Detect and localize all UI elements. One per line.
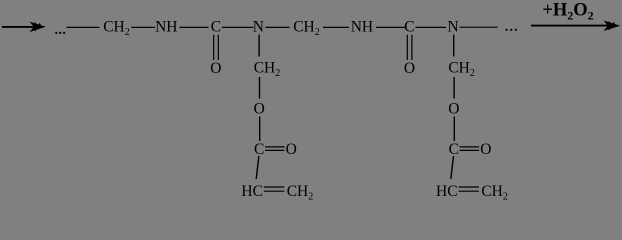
bond C to CH slanted (unit 2) xyxy=(451,156,454,179)
ellipsis dots (right) xyxy=(506,29,517,31)
bond CH2 to NH xyxy=(323,26,349,28)
svg-text:HC: HC xyxy=(241,183,263,200)
bond NH to C xyxy=(180,26,209,28)
svg-text:O: O xyxy=(210,60,221,77)
svg-text:NH: NH xyxy=(155,18,177,35)
bond N to CH2 xyxy=(266,26,290,28)
double bond CH=CH2 (unit 1) xyxy=(264,187,285,191)
double bond CH=CH2 (unit 2) xyxy=(459,187,479,191)
bond C to N xyxy=(222,26,254,28)
svg-text:O: O xyxy=(480,141,491,158)
double bond C=O ester (unit 2) xyxy=(460,147,480,151)
bond CH2 to NH xyxy=(131,26,155,28)
svg-text:N: N xyxy=(447,18,458,35)
bond NH to C xyxy=(376,26,406,28)
svg-text:HC: HC xyxy=(436,183,458,200)
bond N to CH2 vertical (unit 1) xyxy=(258,35,260,57)
svg-text:NH: NH xyxy=(351,18,373,35)
bond C to CH slanted (unit 1) xyxy=(256,156,259,179)
bond ellipsis to CH2 xyxy=(67,26,100,28)
bond N to CH2 vertical (unit 2) xyxy=(453,35,455,57)
svg-text:C: C xyxy=(404,18,414,35)
svg-text:C: C xyxy=(254,141,264,158)
svg-text:O: O xyxy=(404,60,415,77)
bond CH2 to O vertical (unit 2) xyxy=(453,77,455,99)
double bond C=O amide (unit 2) xyxy=(407,35,412,60)
ellipsis dots (left) xyxy=(55,32,65,34)
reaction arrow (right) xyxy=(531,21,620,31)
bond CH2 to O vertical (unit 1) xyxy=(259,77,261,99)
svg-text:O: O xyxy=(254,101,265,118)
double bond C=O ester (unit 1) xyxy=(265,147,285,151)
svg-text:C: C xyxy=(211,18,221,35)
svg-text:O: O xyxy=(448,101,459,118)
bond O to C vertical (unit 1) xyxy=(259,117,261,142)
double bond C=O amide (unit 1) xyxy=(214,35,219,60)
bond N to ellipsis xyxy=(460,26,498,28)
svg-text:C: C xyxy=(449,141,459,158)
reaction arrow (left) xyxy=(2,22,46,32)
bond C to N xyxy=(416,26,447,28)
svg-text:N: N xyxy=(253,18,264,35)
bond O to C vertical (unit 2) xyxy=(453,117,455,142)
svg-text:O: O xyxy=(286,141,297,158)
